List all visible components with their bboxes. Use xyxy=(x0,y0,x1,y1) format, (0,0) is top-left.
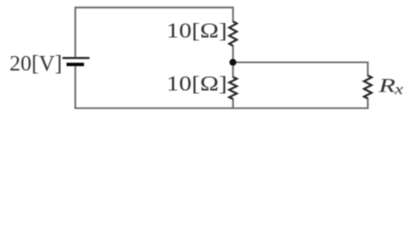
svg-text:20[V]: 20[V] xyxy=(10,51,63,76)
svg-text:10[Ω]: 10[Ω] xyxy=(166,72,227,96)
svg-text:x: x xyxy=(394,81,404,97)
svg-text:10[Ω]: 10[Ω] xyxy=(166,19,227,43)
svg-text:R: R xyxy=(378,76,396,97)
